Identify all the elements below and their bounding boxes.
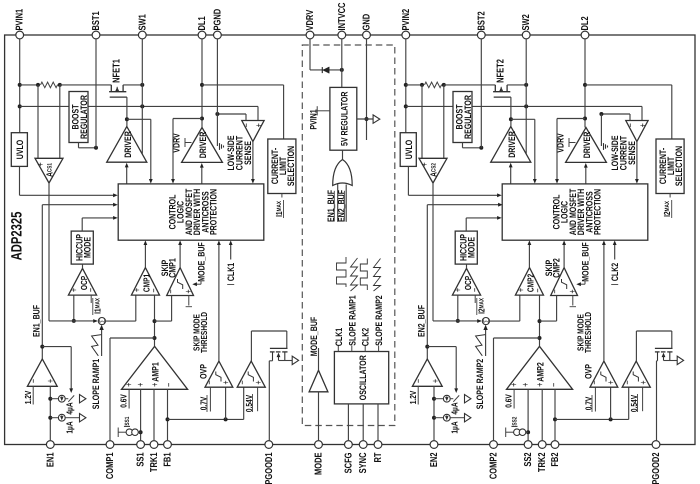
svg-text:SELECTION: SELECTION <box>285 146 296 186</box>
wire SW2 <box>525 39 527 107</box>
resistor sense R2 <box>425 82 442 88</box>
OR gate U1 enable <box>333 160 353 186</box>
wire DL1 <box>201 39 203 128</box>
pin DL2 <box>581 31 589 39</box>
wire PGOOD cmp out <box>635 331 637 361</box>
block BOOST REGULATOR 2 <box>453 92 472 143</box>
svg-text:SW2: SW2 <box>521 14 532 31</box>
arrow into driver <box>125 163 129 168</box>
arrow out 4uA <box>465 395 471 403</box>
wire <box>317 110 330 112</box>
svg-text:CMP2: CMP2 <box>525 274 535 292</box>
ground <box>603 143 605 150</box>
wire driver out to control <box>511 118 535 120</box>
pin DL1 <box>198 31 206 39</box>
svg-text:CMP1: CMP1 <box>141 274 151 292</box>
arrow into control <box>113 216 118 220</box>
wire EN1_BUF <box>41 205 43 359</box>
wire up to CMP+ <box>135 295 137 321</box>
svg-text:+: + <box>431 379 442 384</box>
wire down to control <box>534 119 536 180</box>
svg-text:EN2: EN2 <box>429 452 440 467</box>
arrow onto switch <box>454 388 458 393</box>
svg-text:OCP: OCP <box>79 276 89 290</box>
arrow into low driver <box>584 163 588 168</box>
svg-text:−: − <box>414 379 425 384</box>
VDRV tick <box>568 138 570 147</box>
wire CLK1 <box>230 244 232 260</box>
transistor NFET2 <box>494 85 496 92</box>
svg-text:+: + <box>420 162 431 167</box>
wire SW1 to driver <box>141 106 143 153</box>
wire MODE <box>318 392 320 441</box>
arrow into multiplier <box>483 325 487 330</box>
wire up to CMP+ <box>519 295 521 321</box>
comparator CMP1 <box>131 268 159 296</box>
svg-text:SENSE: SENSE <box>242 141 253 165</box>
wire to PGOOD- <box>628 387 630 419</box>
svg-text:PGND: PGND <box>212 9 223 31</box>
svg-text:PVIN1: PVIN1 <box>307 109 318 129</box>
pin BST2 <box>477 31 485 39</box>
wire Rsense to ACS2- <box>443 85 445 158</box>
wire OVP out <box>218 244 220 362</box>
wire driver out <box>126 119 128 126</box>
block 5V REGULATOR <box>330 87 357 150</box>
node 1uA <box>48 416 52 420</box>
svg-text:VDRV: VDRV <box>555 133 566 153</box>
tick <box>611 284 618 286</box>
wire skip+ stub <box>572 296 574 306</box>
wire to NFET2 <box>444 84 496 86</box>
wire driver out to control <box>127 118 151 120</box>
svg-text:+: + <box>568 289 579 294</box>
wire sense out <box>252 142 254 181</box>
node 1uA <box>432 416 436 420</box>
svg-text:NFET2: NFET2 <box>496 59 507 83</box>
pin PGND <box>214 31 222 39</box>
wire to FET gate <box>671 331 673 348</box>
pin SW1 <box>138 31 146 39</box>
switch <box>453 395 459 401</box>
node resistor left <box>420 83 424 87</box>
arrow into control <box>113 193 118 197</box>
transistor PGOOD1 FET <box>270 347 288 349</box>
wire to skip- <box>155 320 172 322</box>
node ISS <box>139 430 143 434</box>
wire mode_buf <box>200 281 202 285</box>
wire <box>466 217 498 219</box>
node resistor right <box>58 83 62 87</box>
wire 1.2V ref <box>32 386 34 404</box>
underline EN1_BUF <box>333 191 335 222</box>
wire reg to OR <box>342 150 344 159</box>
svg-text:+: + <box>36 162 47 167</box>
svg-text:4µA: 4µA <box>450 402 460 415</box>
wire control to driver <box>510 166 512 184</box>
wire <box>251 330 286 332</box>
wire PGOOD2 <box>656 361 658 441</box>
comparator OVP ch1 <box>205 361 233 387</box>
wire up to skip- <box>171 296 173 322</box>
svg-text:−: − <box>625 123 636 128</box>
underline <box>252 394 254 412</box>
svg-text:SS1: SS1 <box>136 452 147 467</box>
wire AMP out up <box>154 295 156 346</box>
svg-text:DL2: DL2 <box>580 16 591 30</box>
wire INTVCC <box>341 39 343 88</box>
arrow into control bottom <box>178 240 182 245</box>
wire TRK2 <box>541 389 543 441</box>
arrow into multiplier <box>477 319 482 323</box>
wire 0.54V stub <box>642 387 644 411</box>
node BST2 <box>479 146 483 150</box>
node BST1 <box>94 146 98 150</box>
wire 0.7V stub <box>594 387 596 411</box>
wire COMP2 <box>493 338 495 441</box>
wire hiccup to control <box>81 218 83 231</box>
svg-text:−: − <box>205 380 216 385</box>
wire up to skip- <box>556 296 558 322</box>
svg-text:AMP2: AMP2 <box>535 362 546 382</box>
tick <box>227 284 234 286</box>
arrow into driver <box>509 163 513 168</box>
wire sense- stub <box>245 114 247 121</box>
svg-text:DRIVER: DRIVER <box>506 131 517 158</box>
resistor sense R1 <box>41 82 58 88</box>
hysteresis glyph <box>633 372 638 382</box>
node SW2 rail1 <box>524 83 528 87</box>
node comp <box>153 336 157 340</box>
arrow into control bottom <box>144 240 148 245</box>
svg-text:PVIN2: PVIN2 <box>401 8 412 30</box>
node INTVCC <box>340 68 344 72</box>
wire rail 1 <box>20 84 38 86</box>
driver DRIVER2 high-side <box>491 127 531 163</box>
wire RT <box>377 404 379 441</box>
node DL1 driver out <box>200 117 204 121</box>
svg-text:FB1: FB1 <box>163 452 174 466</box>
comparator OCP2 <box>452 268 480 295</box>
wire PGND1 <box>216 39 218 146</box>
svg-text:+: + <box>221 380 232 385</box>
svg-text:CLK1: CLK1 <box>333 328 344 346</box>
node OVP+ <box>609 417 613 421</box>
svg-text:OCP: OCP <box>463 276 473 290</box>
pin COMP2 <box>490 441 498 449</box>
pin EN2 <box>430 441 438 449</box>
pin EN1 <box>46 441 54 449</box>
wire SYNC <box>362 404 364 441</box>
wire EN2 <box>433 386 435 441</box>
node OCP+ <box>72 319 76 323</box>
node PVIN1 rail1 <box>18 83 22 87</box>
svg-text:+: + <box>135 382 146 387</box>
svg-text:CLK2: CLK2 <box>609 263 620 281</box>
wire Rsense to ACS1+ <box>37 85 39 158</box>
pin FB2 <box>551 441 559 449</box>
waveform glyph CLK2 square <box>360 259 367 291</box>
svg-text:TRK2: TRK2 <box>537 452 548 472</box>
hysteresis glyph <box>248 372 253 382</box>
comparator EN2 1.2V <box>412 359 442 386</box>
wire to skip- <box>540 320 557 322</box>
svg-text:CLK2: CLK2 <box>360 328 371 346</box>
switch <box>68 395 74 401</box>
wire <box>442 84 444 86</box>
multiplier sum ch1 <box>98 318 105 325</box>
svg-text:VDRV: VDRV <box>171 133 182 153</box>
node PVIN2 rail1 <box>404 83 408 87</box>
wire to PGOOD- <box>243 387 245 419</box>
pin PVIN2 <box>402 31 410 39</box>
wire EN_BUF to control <box>42 204 114 206</box>
pin COMP1 <box>106 441 114 449</box>
wire PGND to sense- <box>601 113 630 115</box>
arrow into control bottom <box>602 240 606 245</box>
block CONTROL LOGIC 2 <box>502 184 648 240</box>
svg-text:−: − <box>622 380 633 385</box>
dashed box <box>302 45 395 426</box>
hysteresis glyph <box>562 279 567 289</box>
node PVIN1 rail2 <box>18 104 22 108</box>
svg-text:SLOPE RAMP2: SLOPE RAMP2 <box>373 295 384 345</box>
svg-text:+: + <box>46 379 57 384</box>
wire PGOOD cmp out <box>250 331 252 361</box>
arrow onto switch <box>69 388 73 393</box>
svg-text:BST2: BST2 <box>476 11 487 31</box>
svg-text:REGULATOR: REGULATOR <box>78 95 89 139</box>
svg-text:−: − <box>237 380 248 385</box>
wire BST2 <box>480 39 482 148</box>
underline EN2_BUF <box>343 191 345 222</box>
underline <box>476 298 478 315</box>
svg-text:+: + <box>638 380 649 385</box>
svg-text:THRESHOLD: THRESHOLD <box>199 312 209 353</box>
svg-text:MODE: MODE <box>465 237 476 258</box>
wire control to low driver <box>201 166 203 184</box>
pin SW2 <box>522 31 530 39</box>
wire control to low driver <box>585 166 587 184</box>
node SW1 rail2 <box>140 104 144 108</box>
wire driver out <box>510 119 512 126</box>
block OSCILLATOR <box>334 352 388 404</box>
arrow into control bottom <box>217 240 221 245</box>
pin MODE <box>315 441 323 449</box>
wire VDRV to INTVCC <box>310 69 342 71</box>
wire NFET to SW <box>507 84 526 86</box>
arrow into multiplier <box>93 319 98 323</box>
svg-text:CMP2: CMP2 <box>551 258 562 278</box>
wire to FET gate <box>286 331 288 348</box>
wire 0.6V <box>128 389 130 408</box>
block UVLO2 <box>400 133 416 167</box>
svg-text:ADP2325: ADP2325 <box>9 212 26 261</box>
wire hiccup to control <box>465 218 467 231</box>
wire FB2 <box>554 389 556 441</box>
block BOOST REGULATOR 1 <box>69 92 88 143</box>
wire BST1 <box>95 39 97 148</box>
waveform glyph CLK1 square <box>337 257 347 287</box>
wire DL to control drop <box>173 118 202 120</box>
svg-text:+: + <box>254 123 265 128</box>
arrow PGOOD out <box>677 356 683 364</box>
wire rail 2 <box>406 84 422 86</box>
wire SS2 <box>527 389 529 441</box>
svg-text:MODE: MODE <box>81 237 92 258</box>
wire ACS to multiplier <box>433 320 481 322</box>
node DL2 rail <box>583 83 587 87</box>
comparator PGOOD ch1 <box>237 361 265 387</box>
arrow into control bottom <box>528 240 532 245</box>
wire PVIN1 to UVLO1 <box>19 39 21 133</box>
node driver out <box>509 117 513 121</box>
svg-text:UVLO: UVLO <box>403 140 414 160</box>
wire rail2 ch2 <box>406 105 642 107</box>
svg-text:BST1: BST1 <box>91 11 102 31</box>
svg-text:FB2: FB2 <box>550 452 561 466</box>
svg-text:PVIN1: PVIN1 <box>15 8 26 30</box>
pin VDRV <box>306 31 314 39</box>
hysteresis glyph <box>216 372 221 382</box>
osc out CLK2 <box>364 346 366 352</box>
wire to NFET1 <box>60 84 112 86</box>
comparator OCP1 <box>68 268 96 295</box>
wire FB1 <box>167 389 169 441</box>
pin PGOOD1 <box>265 441 273 449</box>
diode D1 INTVCC-VDRV <box>321 67 323 73</box>
wire CLK2 <box>614 244 616 260</box>
svg-text:SLOPE RAMP1: SLOPE RAMP1 <box>90 359 101 409</box>
wire DL to current limit <box>202 84 284 86</box>
wire SW2 to driver <box>525 106 527 153</box>
wire OCP to hiccup <box>466 264 468 268</box>
svg-text:RT: RT <box>373 453 384 463</box>
pin SYNC <box>359 441 367 449</box>
svg-text:−: − <box>29 379 40 384</box>
wire gnd stub <box>600 114 602 146</box>
tick <box>186 306 192 308</box>
node PGND <box>599 112 603 116</box>
tick <box>316 106 318 115</box>
wire DL to current limit <box>585 84 672 86</box>
wire to 4uA switch <box>427 346 456 348</box>
svg-text:DRIVER: DRIVER <box>197 132 208 159</box>
wire OR in 1 <box>337 184 339 222</box>
arrow into control top <box>171 179 175 184</box>
wire UVLO to control <box>20 194 115 196</box>
svg-text:PGOOD2: PGOOD2 <box>651 452 662 484</box>
wire NFET gate to driver out <box>510 97 512 119</box>
node 4uA <box>48 397 52 401</box>
arrow out 4uA <box>80 395 86 403</box>
waveform glyph SLOPE RAMP2 sawtooth <box>374 259 381 292</box>
svg-text:−: − <box>590 380 601 385</box>
svg-text:EN1_BUF: EN1_BUF <box>31 305 42 337</box>
pin BST1 <box>92 31 100 39</box>
node driver out <box>125 117 129 121</box>
svg-text:PROTECTION: PROTECTION <box>592 189 603 235</box>
arrow into control <box>497 193 502 197</box>
svg-text:−: − <box>166 289 177 294</box>
arrow into low driver <box>200 163 204 168</box>
wire down to current limit block <box>283 85 285 139</box>
hysteresis glyph <box>178 279 183 289</box>
wire EN_BUF to control <box>427 204 499 206</box>
pin GND <box>363 31 371 39</box>
wire boost out <box>78 143 80 148</box>
wire VDRV <box>309 39 311 70</box>
VDRV stub <box>569 142 576 144</box>
arrow into control bottom <box>229 240 233 245</box>
wire COMP1 <box>109 338 111 441</box>
svg-text:DRIVER: DRIVER <box>122 131 133 158</box>
block CONTROL LOGIC 1 <box>118 184 264 240</box>
wire ACS to multiplier <box>49 320 97 322</box>
current source 1uA <box>443 414 450 421</box>
svg-text:−: − <box>550 289 561 294</box>
pin INTVCC <box>338 31 346 39</box>
wire multiplier to CMP+ <box>105 320 136 322</box>
pin SS2 <box>524 441 532 449</box>
wire OCP- stub <box>90 295 92 303</box>
comparator OVP ch2 <box>590 361 618 387</box>
svg-text:SLOPE RAMP2: SLOPE RAMP2 <box>474 359 485 409</box>
wire skip out <box>179 244 181 268</box>
svg-text:PROTECTION: PROTECTION <box>208 189 219 235</box>
op-amp AMP1 <box>122 346 188 389</box>
wire PGOOD1 <box>268 361 270 441</box>
wire control to driver <box>126 166 128 184</box>
wire MODE_BUF out <box>318 348 320 370</box>
svg-text:MODE_BUF: MODE_BUF <box>196 242 207 282</box>
svg-text:+: + <box>638 123 649 128</box>
arrow into control bottom <box>562 240 566 245</box>
comparator SKIP CMP2 <box>551 268 578 296</box>
node FB <box>553 417 557 421</box>
svg-text:OVP: OVP <box>198 364 209 379</box>
wire 0.6V <box>513 389 515 408</box>
svg-text:−: − <box>241 123 252 128</box>
wire down <box>455 347 457 391</box>
svg-text:1µA: 1µA <box>450 421 460 434</box>
transistor NFET1 <box>110 85 112 92</box>
svg-text:DRIVER: DRIVER <box>581 132 592 159</box>
wire CMP out <box>144 244 146 268</box>
wire 1.2V ref <box>417 386 419 404</box>
svg-text:+: + <box>520 382 531 387</box>
wire UVLO1 out <box>19 166 21 195</box>
node FB <box>166 417 170 421</box>
wire <box>82 217 114 219</box>
wire OR in 2 <box>345 185 347 222</box>
arrow into skip side <box>576 282 581 286</box>
svg-text:CMP1: CMP1 <box>167 258 178 278</box>
comparator EN1 1.2V <box>27 359 57 386</box>
svg-text:+: + <box>535 382 546 387</box>
osc out SLOPE RAMP1 <box>351 346 353 352</box>
wire multiplier to CMP+ <box>489 320 520 322</box>
node comp <box>538 336 542 340</box>
svg-text:VDRV: VDRV <box>305 10 316 31</box>
pin RT <box>374 441 382 449</box>
osc out CLK1 <box>337 346 339 352</box>
analog ground symbol <box>373 115 380 123</box>
current source 1uA <box>58 414 65 421</box>
buffer MODE <box>309 370 328 392</box>
arrow into skip side <box>192 282 197 286</box>
underline <box>671 200 673 218</box>
